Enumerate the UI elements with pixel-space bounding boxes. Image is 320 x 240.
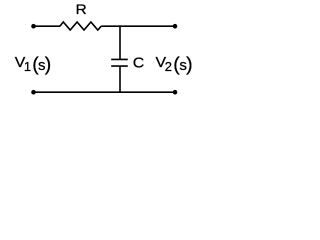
label V1(s) (15, 53, 51, 75)
junction: top node (R/C) to output (120, 25, 175, 27)
svg-text:): ) (45, 53, 52, 75)
label V2(s) (156, 53, 193, 75)
svg-text:1: 1 (24, 59, 31, 74)
capacitor C (111, 25, 128, 93)
svg-text:2: 2 (165, 59, 172, 74)
resistor R (60, 22, 102, 30)
svg-text:): ) (186, 53, 193, 75)
wire: top rail, input terminal to resistor (34, 25, 61, 27)
wire: bottom rail (34, 91, 176, 93)
terminal dot: top-left input (31, 24, 36, 29)
terminal dot: top-right output (173, 24, 178, 29)
terminal dot: bottom-left (31, 90, 36, 95)
terminal dot: bottom-right (173, 90, 178, 95)
svg-text:R: R (76, 1, 87, 17)
wire: top rail, resistor to capacitor junction (101, 25, 120, 27)
svg-text:C: C (133, 55, 145, 71)
